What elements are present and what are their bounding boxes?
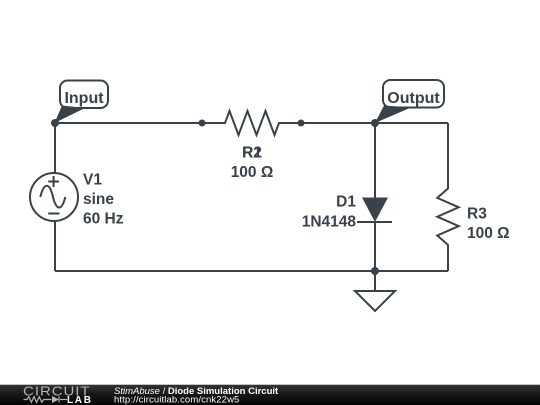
svg-text:100 Ω: 100 Ω — [231, 164, 274, 181]
svg-text:V1: V1 — [83, 172, 102, 189]
svg-text:R3: R3 — [467, 206, 487, 223]
svg-text:60 Hz: 60 Hz — [83, 211, 124, 228]
svg-text:Input: Input — [64, 90, 104, 107]
svg-text:http://circuitlab.com/cnk22w5: http://circuitlab.com/cnk22w5 — [114, 394, 239, 405]
svg-text:1N4148: 1N4148 — [302, 214, 357, 231]
svg-text:LAB: LAB — [67, 395, 93, 405]
svg-text:Output: Output — [387, 90, 440, 107]
svg-text:sine: sine — [83, 191, 114, 208]
svg-text:R1: R1 — [242, 145, 262, 162]
svg-text:100 Ω: 100 Ω — [467, 225, 510, 242]
svg-text:D1: D1 — [336, 194, 356, 211]
